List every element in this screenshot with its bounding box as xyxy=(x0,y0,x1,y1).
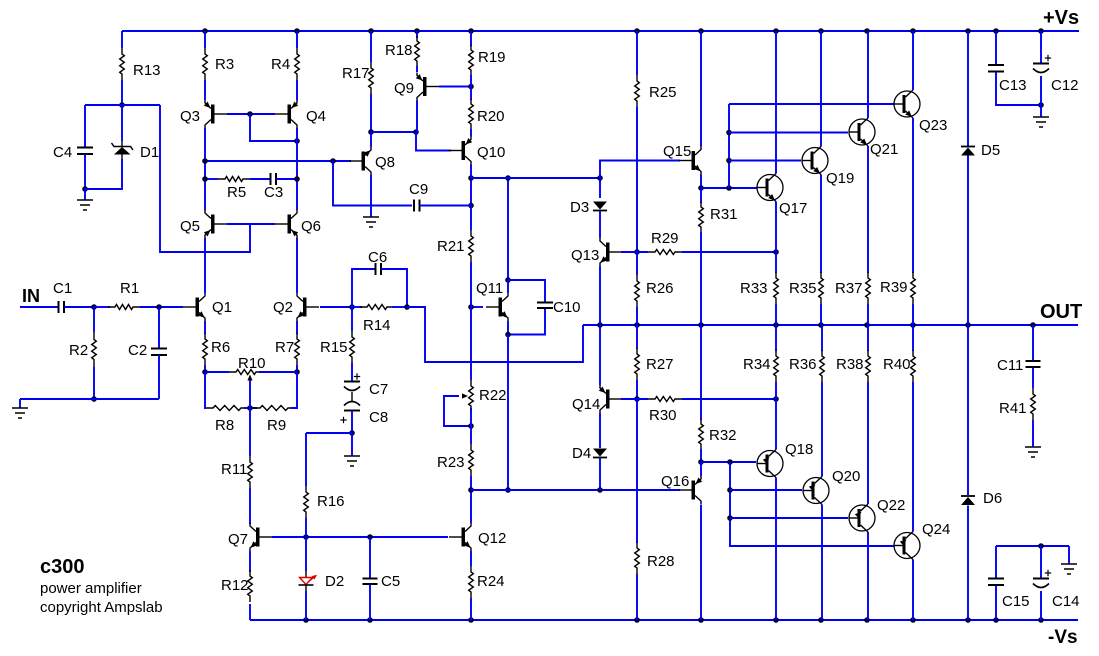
wire xyxy=(470,551,472,566)
svg-text:R27: R27 xyxy=(646,356,674,373)
wire predriver bus xyxy=(728,104,730,188)
svg-text:C6: C6 xyxy=(368,249,387,266)
wire xyxy=(599,459,601,491)
wire xyxy=(291,372,297,408)
svg-text:D6: D6 xyxy=(983,490,1002,507)
wire xyxy=(351,363,353,381)
wire xyxy=(351,392,353,401)
trimmer wiper arrow R10 xyxy=(247,375,252,381)
resistor R37 xyxy=(866,272,871,304)
junction xyxy=(818,322,824,328)
svg-text:R6: R6 xyxy=(211,339,230,356)
zener diode D1 xyxy=(112,141,134,159)
svg-text:Q6: Q6 xyxy=(301,218,321,235)
junction xyxy=(303,617,309,623)
junction xyxy=(82,186,88,192)
resistor R19 xyxy=(469,45,474,75)
svg-text:R36: R36 xyxy=(789,356,817,373)
trimmer wiper arrow R22 xyxy=(462,393,468,398)
svg-text:R19: R19 xyxy=(478,49,506,66)
wire xyxy=(867,532,869,620)
wire xyxy=(636,380,638,399)
svg-text:power amplifier: power amplifier xyxy=(40,580,142,597)
wire xyxy=(775,382,777,399)
wire xyxy=(701,461,756,463)
svg-text:R11: R11 xyxy=(221,461,247,478)
wire R22 wiper xyxy=(444,396,471,426)
junction xyxy=(727,459,733,465)
wire R10 wiper xyxy=(249,377,251,408)
resistor R33 xyxy=(774,272,779,304)
wire xyxy=(967,506,969,621)
wire xyxy=(158,307,160,348)
svg-text:D4: D4 xyxy=(572,445,591,462)
wire xyxy=(305,433,307,486)
svg-text:C3: C3 xyxy=(264,184,283,201)
svg-text:R23: R23 xyxy=(437,454,465,471)
junction xyxy=(773,322,779,328)
svg-text:D5: D5 xyxy=(981,142,1000,159)
junction xyxy=(156,304,162,310)
wire xyxy=(351,411,353,433)
transistor Q9 xyxy=(416,73,439,101)
junction xyxy=(349,304,355,310)
junction xyxy=(505,175,511,181)
wire xyxy=(249,408,251,456)
wire xyxy=(93,307,95,332)
junction xyxy=(698,459,704,465)
svg-text:R26: R26 xyxy=(646,280,674,297)
wire predriver bus xyxy=(730,462,894,546)
wire xyxy=(470,165,472,179)
junction xyxy=(294,369,300,375)
wire xyxy=(272,536,448,538)
wire xyxy=(682,251,776,253)
junction xyxy=(597,487,603,493)
wire xyxy=(84,189,86,200)
resistor R27 xyxy=(635,348,640,380)
svg-text:R20: R20 xyxy=(477,108,505,125)
svg-text:Q12: Q12 xyxy=(478,530,506,547)
junction xyxy=(698,617,704,623)
wire xyxy=(912,560,914,621)
wire xyxy=(84,105,86,147)
svg-text:Q19: Q19 xyxy=(826,170,854,187)
resistor R16 xyxy=(304,486,309,518)
wire xyxy=(507,321,509,335)
wire xyxy=(820,175,822,274)
resistor R11 xyxy=(248,456,253,488)
junction xyxy=(634,249,640,255)
junction xyxy=(505,277,511,283)
wire xyxy=(996,545,1069,547)
junction xyxy=(864,28,870,34)
junction xyxy=(294,28,300,34)
svg-text:R22: R22 xyxy=(479,387,507,404)
wire xyxy=(416,66,418,72)
capacitor C12 xyxy=(1033,55,1051,73)
wire xyxy=(701,187,757,189)
junction xyxy=(468,84,474,90)
svg-text:R29: R29 xyxy=(651,230,679,247)
wire xyxy=(995,546,997,578)
junction xyxy=(468,175,474,181)
wire xyxy=(305,537,307,571)
wire xyxy=(507,280,509,293)
resistor R5 xyxy=(218,177,250,182)
wire xyxy=(1040,546,1042,579)
resistor R3 xyxy=(203,48,208,80)
svg-text:R17: R17 xyxy=(342,65,370,82)
wire xyxy=(775,202,777,253)
ground xyxy=(363,217,379,227)
wire xyxy=(1040,76,1042,105)
wire xyxy=(912,31,914,90)
junction xyxy=(965,322,971,328)
wire xyxy=(912,304,914,325)
transistor Q10 xyxy=(449,137,472,165)
wire xyxy=(821,505,823,621)
capacitor C1 xyxy=(59,301,65,313)
resistor R12 xyxy=(248,570,253,602)
transistor Q13 xyxy=(600,238,622,266)
resistor R18 xyxy=(415,36,420,66)
junction xyxy=(1030,322,1036,328)
svg-text:R9: R9 xyxy=(267,417,286,434)
diode D6 xyxy=(961,496,975,505)
junction xyxy=(1038,102,1044,108)
capacitor C15 xyxy=(988,579,1004,586)
capacitor C5 xyxy=(363,579,378,585)
wire xyxy=(296,365,298,372)
wire xyxy=(599,413,601,448)
resistor R8 xyxy=(206,406,248,411)
wire xyxy=(471,489,680,491)
ground xyxy=(344,456,360,466)
resistor R25 xyxy=(635,75,640,107)
svg-text:Q14: Q14 xyxy=(572,396,600,413)
resistor R39 xyxy=(911,272,916,304)
wire xyxy=(370,31,372,62)
svg-text:R41: R41 xyxy=(999,400,1027,417)
transistor Q16 xyxy=(679,476,702,504)
junction xyxy=(349,430,355,436)
wire xyxy=(1032,420,1034,447)
wire xyxy=(996,72,1041,105)
transistor Q22 xyxy=(849,504,876,532)
wire xyxy=(227,223,275,225)
junction xyxy=(468,487,474,493)
junction xyxy=(818,617,824,623)
wire xyxy=(821,382,823,477)
svg-text:R34: R34 xyxy=(743,356,771,373)
transistor Q19 xyxy=(802,147,829,175)
transistor Q1 xyxy=(183,293,205,321)
svg-text:D3: D3 xyxy=(570,199,589,216)
svg-text:Q8: Q8 xyxy=(375,154,395,171)
wire xyxy=(599,212,601,239)
svg-text:R13: R13 xyxy=(133,62,161,79)
wire xyxy=(470,476,472,490)
junction xyxy=(698,322,704,328)
wire xyxy=(19,399,21,408)
junction xyxy=(91,304,97,310)
junction xyxy=(468,617,474,623)
wire xyxy=(636,252,638,275)
wire xyxy=(867,31,869,118)
svg-text:R33: R33 xyxy=(740,280,768,297)
wire xyxy=(912,382,914,532)
wire xyxy=(85,159,122,189)
wire xyxy=(600,161,680,179)
wire xyxy=(621,398,648,400)
wire xyxy=(636,574,638,620)
transistor Q4 xyxy=(275,100,298,128)
junction xyxy=(864,322,870,328)
svg-text:R14: R14 xyxy=(363,317,391,334)
svg-text:R24: R24 xyxy=(477,573,505,590)
svg-text:R39: R39 xyxy=(880,279,908,296)
wire xyxy=(700,449,702,462)
junction xyxy=(773,28,779,34)
wire xyxy=(370,94,372,132)
wire xyxy=(439,86,471,88)
wire xyxy=(729,132,848,134)
wire xyxy=(867,325,869,351)
wire xyxy=(1068,546,1070,564)
wire xyxy=(867,304,869,325)
junction xyxy=(634,617,640,623)
wire xyxy=(470,206,472,231)
wire xyxy=(682,398,776,400)
wire xyxy=(121,31,123,48)
capacitor C10 xyxy=(537,303,553,309)
diode D4 xyxy=(593,449,607,458)
wire xyxy=(470,598,472,620)
wire xyxy=(1032,325,1034,361)
wire xyxy=(1040,105,1042,117)
junction xyxy=(202,28,208,34)
wire xyxy=(820,31,822,147)
svg-text:C7: C7 xyxy=(369,381,388,398)
wire xyxy=(306,432,352,434)
junction xyxy=(404,304,410,310)
wire xyxy=(470,31,472,46)
junction xyxy=(698,185,704,191)
transistor Q14 xyxy=(599,385,622,413)
transistor Q2 xyxy=(297,293,319,321)
junction xyxy=(468,304,474,310)
svg-text:C12: C12 xyxy=(1051,77,1079,94)
svg-text:R25: R25 xyxy=(649,84,677,101)
capacitor C4 xyxy=(77,148,93,155)
svg-text:C9: C9 xyxy=(409,181,428,198)
wire xyxy=(250,178,270,180)
ground xyxy=(1061,564,1077,574)
svg-text:R32: R32 xyxy=(709,427,737,444)
svg-text:Q22: Q22 xyxy=(877,497,905,514)
transistor Q11 xyxy=(486,293,508,321)
transistor Q3 xyxy=(204,100,227,128)
svg-text:R21: R21 xyxy=(437,238,465,255)
svg-text:R3: R3 xyxy=(215,56,234,73)
resistor R6 xyxy=(203,333,208,365)
svg-text:C15: C15 xyxy=(1002,593,1030,610)
wire xyxy=(599,266,601,325)
junction xyxy=(1038,617,1044,623)
wire xyxy=(250,114,297,141)
transistor Q20 xyxy=(803,477,830,505)
diode D3 xyxy=(593,202,607,211)
wire C9 right xyxy=(420,205,472,207)
wire xyxy=(967,325,969,495)
wire xyxy=(912,325,914,351)
resistor R10 xyxy=(229,370,263,375)
wire xyxy=(205,160,351,162)
wire xyxy=(775,304,777,325)
wire xyxy=(470,75,472,87)
wire xyxy=(470,408,472,444)
resistor R9 xyxy=(253,406,295,411)
capacitor C6 xyxy=(376,263,382,275)
svg-text:R18: R18 xyxy=(385,42,413,59)
svg-text:Q3: Q3 xyxy=(180,108,200,125)
wire xyxy=(204,80,206,100)
resistor R28 xyxy=(635,542,640,574)
wire +Vs rail xyxy=(122,30,1079,32)
junction xyxy=(726,158,732,164)
wire xyxy=(470,491,472,523)
wire xyxy=(775,252,777,273)
wire xyxy=(636,399,638,543)
svg-text:Q13: Q13 xyxy=(571,247,599,264)
junction xyxy=(864,617,870,623)
svg-text:R28: R28 xyxy=(647,553,675,570)
wire xyxy=(821,325,823,351)
wire xyxy=(508,280,545,302)
svg-text:Q20: Q20 xyxy=(832,468,860,485)
junction xyxy=(773,396,779,402)
junction xyxy=(368,129,374,135)
wire xyxy=(244,407,257,409)
resistor R40 xyxy=(911,350,916,382)
resistor R34 xyxy=(774,350,779,382)
wire xyxy=(296,128,298,210)
transistor Q6 xyxy=(275,210,298,238)
wire xyxy=(729,103,894,105)
wire xyxy=(351,433,353,456)
wire xyxy=(305,518,307,537)
svg-text:Q1: Q1 xyxy=(212,299,232,316)
junction xyxy=(634,28,640,34)
wire xyxy=(912,118,914,273)
wire xyxy=(730,517,848,519)
LED D2 xyxy=(299,571,318,591)
svg-text:C5: C5 xyxy=(381,573,400,590)
svg-text:C8: C8 xyxy=(369,409,388,426)
junction xyxy=(294,176,300,182)
svg-text:R7: R7 xyxy=(275,339,294,356)
junction xyxy=(303,534,309,540)
junction xyxy=(910,322,916,328)
wire xyxy=(370,175,372,217)
wire xyxy=(775,325,777,351)
junction xyxy=(367,617,373,623)
wire xyxy=(369,537,371,578)
svg-text:Q9: Q9 xyxy=(394,80,414,97)
junction xyxy=(726,130,732,136)
capacitor C13 xyxy=(988,65,1004,72)
svg-text:C14: C14 xyxy=(1052,593,1080,610)
transistor Q21 xyxy=(849,118,876,146)
wire xyxy=(94,306,110,308)
svg-text:C1: C1 xyxy=(53,280,72,297)
junction xyxy=(634,396,640,402)
wire xyxy=(636,307,638,325)
wire xyxy=(867,146,869,273)
svg-text:Q7: Q7 xyxy=(228,531,248,548)
junction xyxy=(1038,543,1044,549)
wire xyxy=(204,365,206,372)
wire xyxy=(369,585,371,621)
transistor Q5 xyxy=(204,210,227,238)
junction xyxy=(727,487,733,493)
wire xyxy=(20,306,58,308)
svg-text:Q21: Q21 xyxy=(870,141,898,158)
svg-text:C2: C2 xyxy=(128,342,147,359)
wire xyxy=(351,307,353,331)
wire xyxy=(158,355,160,399)
capacitor C14 xyxy=(1033,570,1051,588)
resistor R24 xyxy=(469,566,474,598)
wire xyxy=(1040,31,1042,64)
wire xyxy=(1040,591,1042,620)
resistor R13 xyxy=(120,48,125,80)
junction xyxy=(726,185,732,191)
wire xyxy=(259,371,297,373)
svg-text:-Vs: -Vs xyxy=(1048,627,1078,648)
wire xyxy=(416,132,451,151)
svg-text:D1: D1 xyxy=(140,144,159,161)
wire xyxy=(277,178,298,180)
svg-text:C13: C13 xyxy=(999,77,1027,94)
wire xyxy=(508,309,545,335)
wire xyxy=(599,325,601,385)
svg-text:R5: R5 xyxy=(227,184,246,201)
svg-text:R30: R30 xyxy=(649,407,677,424)
wire -Vs rail xyxy=(250,619,1078,621)
junction xyxy=(294,138,300,144)
wire OUT bus xyxy=(583,324,1078,326)
wire xyxy=(227,113,275,115)
wire xyxy=(121,105,123,141)
junction xyxy=(773,249,779,255)
wire xyxy=(700,505,702,621)
wire xyxy=(967,31,969,146)
transistor Q15 xyxy=(679,147,701,175)
svg-text:c300: c300 xyxy=(40,556,85,578)
ground xyxy=(77,200,93,210)
junction xyxy=(910,28,916,34)
resistor R35 xyxy=(819,272,824,304)
wire xyxy=(204,31,206,48)
wire xyxy=(775,478,777,621)
transistor Q23 xyxy=(894,90,921,118)
svg-text:R16: R16 xyxy=(317,493,345,510)
wire xyxy=(93,367,95,399)
wire xyxy=(320,306,352,308)
resistor R2 xyxy=(92,332,97,367)
